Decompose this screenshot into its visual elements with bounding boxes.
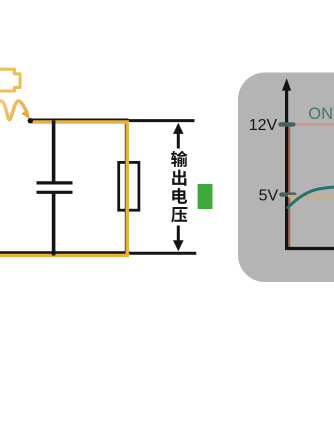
svg-text:ON: ON: [308, 105, 333, 123]
label char 压: [171, 207, 187, 222]
output voltage arrow top shaft: [177, 133, 180, 149]
resistor R body: [119, 162, 139, 210]
chart Y axis arrowhead: [282, 78, 291, 90]
junction node dot: [28, 118, 33, 123]
capacitor C top lead: [52, 120, 56, 181]
output voltage arrow bottom head: [173, 240, 184, 251]
chart Y axis: [285, 87, 288, 249]
chart X axis: [285, 247, 334, 250]
surge arrow from battery: [0, 101, 25, 120]
battery icon (input source): [0, 69, 20, 91]
top wire right segment (black): [129, 119, 195, 122]
svg-text:12V: 12V: [249, 117, 278, 134]
svg-text:5V: 5V: [259, 187, 279, 204]
resistor branch black underlay: [125, 119, 127, 253]
teal output voltage curve: [287, 186, 334, 209]
dark red 12V rising edge (vertical): [288, 124, 290, 247]
label char 电: [172, 188, 187, 204]
output voltage arrow bottom shaft: [177, 226, 180, 242]
tan 5V reference line: [288, 195, 334, 198]
bottom wire right segment (black): [130, 252, 197, 255]
bottom wire black underlay: [0, 251, 130, 254]
capacitor C bottom lead: [52, 194, 56, 256]
top wire black underlay: [31, 119, 129, 122]
5V tick: [282, 192, 295, 196]
green indicator block: [198, 184, 213, 209]
surge arrowhead: [21, 109, 30, 119]
output voltage arrow top head: [173, 123, 184, 134]
12V tick: [281, 122, 294, 126]
capacitor C bottom plate: [37, 191, 73, 194]
pink 12V supply line (horizontal): [289, 123, 334, 125]
label char 出: [172, 170, 186, 186]
chart panel: [238, 73, 334, 283]
capacitor C top plate: [37, 181, 73, 184]
yellow highlighted current loop: [0, 122, 127, 256]
label char 输: [171, 151, 188, 167]
